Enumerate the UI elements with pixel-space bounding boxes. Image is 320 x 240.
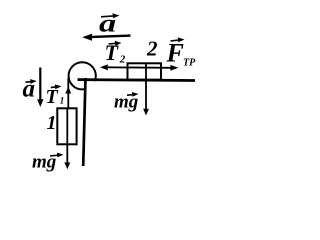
svg-text:T: T <box>46 86 59 108</box>
svg-text:2: 2 <box>119 54 126 66</box>
svg-text:1: 1 <box>47 112 57 134</box>
svg-text:mg: mg <box>32 152 56 173</box>
svg-text:ТР: ТР <box>183 58 196 69</box>
svg-text:a: a <box>99 9 116 37</box>
svg-text:a: a <box>23 76 36 103</box>
svg-text:2: 2 <box>146 36 158 60</box>
svg-text:1: 1 <box>60 95 65 105</box>
svg-text:F: F <box>166 39 184 68</box>
